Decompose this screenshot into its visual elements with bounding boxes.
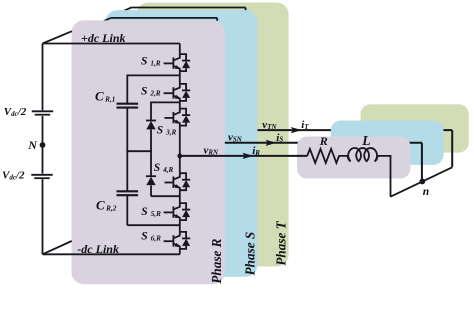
- node n: [419, 179, 425, 185]
- svg-text:Phase R: Phase R: [209, 238, 224, 283]
- battery Vdc/2 upper: [32, 111, 53, 114]
- node output junction phase R: [177, 154, 182, 159]
- wire +dc Link rail: [43, 44, 180, 55]
- svg-text:L: L: [361, 133, 370, 148]
- svg-text:n: n: [423, 186, 429, 198]
- wire diagonal to neutral point n: [391, 167, 453, 196]
- wire capacitor C R,2 branch: [127, 151, 180, 225]
- wire +dc diagonal to hidden phases: [43, 31, 72, 43]
- wire vRN line: [180, 155, 307, 157]
- wire clamp diode 2 branch: [151, 151, 180, 196]
- wire neutral bus: [126, 150, 151, 152]
- svg-text:iT: iT: [301, 119, 309, 131]
- svg-text:R: R: [319, 134, 328, 148]
- wire gate lead S1: [164, 62, 174, 64]
- transistor S4,R: [173, 173, 190, 190]
- wire load R exit: [378, 156, 391, 197]
- wire vSN line: [225, 143, 422, 182]
- wire gate lead S5: [164, 211, 174, 213]
- arrow iT: [291, 127, 302, 133]
- svg-text:-dc Link: -dc Link: [77, 242, 119, 256]
- capacitor C R,2: [117, 191, 139, 195]
- panel Phase S (teal): [105, 10, 257, 277]
- wire vTN line: [257, 130, 452, 167]
- transistor S5,R: [173, 203, 190, 220]
- svg-text:Vdc/2: Vdc/2: [4, 106, 27, 118]
- transistor S3,R: [173, 109, 190, 126]
- wire gate lead S3: [165, 117, 174, 119]
- wire +dc rail phase S: [104, 18, 218, 21]
- panel Phase R (purple): [72, 20, 225, 284]
- svg-text:N: N: [27, 138, 38, 152]
- resistor R: [307, 149, 347, 163]
- node N: [40, 142, 46, 148]
- diode clamp lower: [146, 176, 156, 185]
- wire junction B to clamp diode 1: [151, 102, 180, 151]
- capacitor C R,1: [117, 104, 139, 108]
- load panel phase R (purple): [297, 137, 410, 179]
- svg-text:Vdc/2: Vdc/2: [2, 169, 25, 181]
- wire -dc Link rail: [43, 249, 180, 254]
- arrow iS: [266, 140, 277, 146]
- wire gate lead S6: [164, 240, 174, 242]
- panel Phase T (green): [137, 3, 289, 267]
- wire +dc rail phase T: [124, 8, 245, 11]
- load panel phase S (teal): [331, 121, 444, 165]
- load panel phase T (green): [361, 104, 469, 152]
- transistor S6,R: [173, 232, 190, 249]
- wire gate lead S2: [164, 92, 174, 94]
- battery Vdc/2 lower: [31, 175, 52, 178]
- svg-text:Phase S: Phase S: [242, 232, 257, 276]
- wire left DC bus vertical: [42, 44, 44, 255]
- transistor S2,R: [173, 84, 190, 101]
- svg-text:+dc Link: +dc Link: [81, 31, 126, 45]
- transistor S1,R: [173, 54, 190, 71]
- wire -dc diagonal to hidden phases: [43, 241, 72, 254]
- svg-text:Phase T: Phase T: [274, 220, 289, 265]
- diode clamp upper: [146, 121, 156, 130]
- arrow iR: [243, 153, 254, 159]
- wire junction A to capacitor C R,1: [127, 75, 180, 151]
- wire phase R leg verticals: [179, 71, 181, 232]
- inductor L: [347, 148, 377, 161]
- wire gate lead S4: [165, 182, 174, 184]
